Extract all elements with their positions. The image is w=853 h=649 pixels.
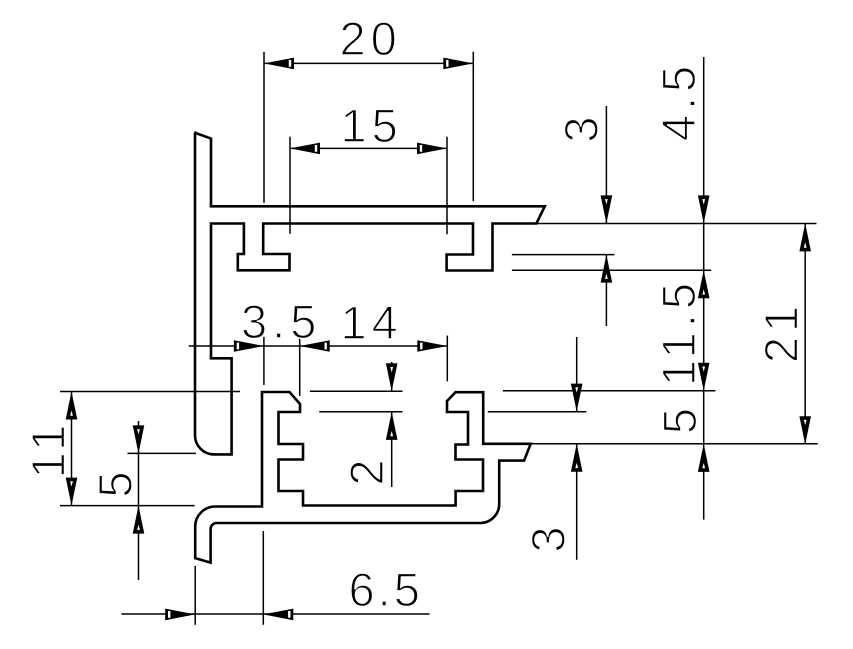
- dim 15 ext left: [289, 137, 291, 234]
- dim 6.5 ext right: [262, 531, 264, 625]
- arrow 21 top: [799, 223, 811, 251]
- dim 3.5 ext left: [263, 337, 265, 385]
- arrow 3.5/14 right: [300, 340, 330, 352]
- svg-text:3: 3: [555, 111, 608, 142]
- arrow 11.5/5 at 391: [698, 363, 710, 391]
- dim 3 top-right line upper: [605, 106, 607, 223]
- dim 21 line: [804, 223, 806, 444]
- dim 15 ext right: [446, 137, 448, 235]
- arrow 20 left: [264, 58, 294, 70]
- arrow 4.5 top: [698, 195, 710, 223]
- dim 15 line: [290, 147, 447, 149]
- arrow 3TR bottom: [601, 255, 613, 283]
- svg-text:14: 14: [341, 296, 403, 349]
- arrow 20 right: [443, 58, 473, 70]
- arrow 4.5/11.5 at 270: [698, 270, 710, 298]
- arrow 15 right: [417, 143, 447, 155]
- dim 2 line lower: [391, 412, 393, 487]
- dim 3 lower-right line lower: [576, 444, 578, 560]
- arrow 3TR top: [601, 195, 613, 223]
- dim 2 ext top: [310, 390, 403, 392]
- arrow 21 bottom: [799, 416, 811, 444]
- ext line 411 right: [488, 411, 587, 413]
- dim 2 ext bottom: [319, 411, 402, 413]
- right chain dim line: [703, 57, 705, 520]
- dim 2 line upper: [391, 362, 393, 391]
- upper profile outline: [195, 133, 545, 455]
- arrow 11 top: [66, 392, 78, 420]
- dim 3.5/14 line: [189, 345, 448, 347]
- arrow 6.5 left: [165, 609, 195, 621]
- arrow 5R bottom: [698, 444, 710, 472]
- arrow 14 right: [417, 340, 447, 352]
- svg-text:3: 3: [522, 521, 575, 552]
- arrow 5L top: [133, 425, 145, 453]
- svg-text:4.5: 4.5: [652, 61, 705, 141]
- svg-text:3.5: 3.5: [241, 295, 321, 348]
- lower profile outline: [195, 392, 531, 563]
- ext line upper-left 391: [60, 391, 240, 393]
- dim 6.5 ext left: [194, 566, 196, 625]
- ext line 391 right: [503, 390, 716, 392]
- ext line 270 right: [512, 269, 711, 271]
- dim 3 top-right line lower: [605, 255, 607, 326]
- arrow 5L bottom: [133, 506, 145, 534]
- dim 11 line: [71, 392, 73, 506]
- dim 5 left line: [138, 421, 140, 580]
- svg-text:20: 20: [340, 12, 402, 65]
- svg-text:11: 11: [22, 420, 75, 479]
- arrow 3LR top: [571, 384, 583, 412]
- dim 20 line: [264, 62, 473, 64]
- arrow 3.5 left: [234, 340, 264, 352]
- arrow 2 top: [386, 363, 398, 391]
- svg-text:5: 5: [89, 466, 142, 497]
- svg-text:2: 2: [340, 454, 393, 485]
- dim 20 ext left: [263, 52, 265, 203]
- dim 14 ext right: [446, 336, 448, 382]
- svg-text:11.5: 11.5: [652, 278, 705, 386]
- ext line 254 right: [512, 254, 615, 256]
- arrow 6.5 right: [263, 609, 293, 621]
- arrow 15 left: [290, 143, 320, 155]
- svg-text:5: 5: [653, 403, 706, 434]
- svg-text:21: 21: [755, 301, 808, 363]
- arrow 11 bottom: [66, 478, 78, 506]
- ext line left 453: [128, 452, 197, 454]
- svg-text:6.5: 6.5: [349, 563, 423, 616]
- arrow 3LR bottom: [571, 444, 583, 472]
- dim 20 ext right: [472, 52, 474, 201]
- dim 3.5 ext right: [299, 337, 301, 396]
- ext line left 505: [60, 505, 195, 507]
- svg-text:15: 15: [341, 99, 403, 152]
- dim 3 lower-right line upper: [576, 337, 578, 412]
- arrow 2 bottom: [386, 412, 398, 440]
- dim 6.5 line: [121, 613, 429, 615]
- ext line 223 right: [536, 222, 816, 224]
- ext line 443 right: [531, 443, 818, 445]
